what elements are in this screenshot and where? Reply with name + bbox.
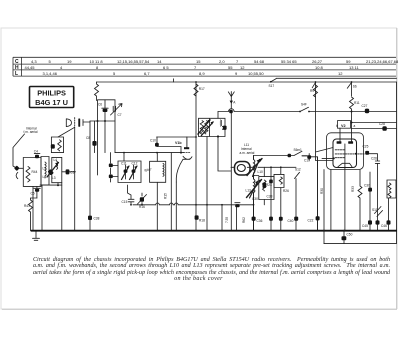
svg-text:H: H: [15, 65, 19, 71]
svg-text:L2: L2: [43, 167, 47, 171]
svg-text:C11: C11: [121, 162, 127, 166]
svg-text:V2: V2: [341, 124, 346, 128]
svg-text:12: 12: [240, 65, 245, 70]
svg-text:9: 9: [235, 71, 238, 76]
svg-text:R16: R16: [139, 205, 145, 209]
svg-text:C6: C6: [98, 103, 102, 107]
svg-text:55: 55: [228, 65, 233, 70]
svg-text:C27: C27: [362, 104, 368, 108]
svg-text:3,1,4,46: 3,1,4,46: [43, 71, 58, 76]
svg-text:21,23,24,66,67,68: 21,23,24,66,67,68: [366, 59, 399, 64]
svg-text:A: A: [233, 101, 236, 105]
svg-text:6 5: 6 5: [163, 65, 169, 70]
svg-text:R24: R24: [266, 183, 272, 187]
svg-text:R33: R33: [351, 186, 355, 192]
svg-text:R17: R17: [199, 87, 205, 91]
svg-text:5: 5: [113, 71, 116, 76]
svg-text:R11: R11: [354, 101, 360, 105]
svg-text:10 11 8: 10 11 8: [90, 59, 104, 64]
svg-text:C4: C4: [34, 150, 38, 154]
svg-text:C45: C45: [362, 224, 368, 228]
svg-text:C5: C5: [31, 192, 35, 196]
svg-text:44,45: 44,45: [25, 65, 36, 70]
svg-text:14: 14: [157, 59, 162, 64]
svg-text:S12: S12: [295, 168, 301, 172]
svg-text:C8: C8: [86, 136, 90, 140]
svg-text:4: 4: [60, 65, 63, 70]
svg-text:7: 7: [194, 65, 197, 70]
svg-text:C36: C36: [257, 219, 263, 223]
svg-text:R44: R44: [32, 170, 38, 174]
svg-text:S11: S11: [372, 208, 378, 212]
svg-text:R30: R30: [320, 188, 324, 194]
svg-text:5: 5: [49, 59, 52, 64]
svg-text:13 11: 13 11: [349, 65, 359, 70]
svg-text:L1: L1: [43, 175, 47, 179]
svg-text:L4: L4: [54, 158, 58, 162]
svg-text:R15: R15: [164, 193, 168, 199]
svg-text:59: 59: [346, 59, 351, 64]
svg-text:PHILIPS: PHILIPS: [37, 89, 66, 98]
svg-text:7: 7: [236, 59, 239, 64]
svg-text:a.m. aerial: a.m. aerial: [240, 151, 255, 155]
svg-text:C7: C7: [118, 113, 122, 117]
svg-text:S17: S17: [269, 84, 275, 88]
svg-text:C3: C3: [70, 171, 74, 175]
svg-text:4,3: 4,3: [31, 59, 37, 64]
svg-text:C10: C10: [150, 139, 156, 143]
svg-text:10 8: 10 8: [315, 65, 324, 70]
svg-text:B4G 17 U: B4G 17 U: [35, 98, 68, 107]
svg-text:L10: L10: [258, 170, 264, 174]
svg-text:S4F: S4F: [301, 103, 307, 107]
svg-text:8: 8: [96, 65, 99, 70]
svg-text:R18: R18: [199, 219, 205, 223]
svg-text:a: a: [354, 124, 356, 128]
svg-text:L: L: [15, 71, 18, 77]
svg-text:C30: C30: [252, 197, 258, 201]
svg-text:55 34 65: 55 34 65: [281, 59, 297, 64]
svg-text:R26: R26: [283, 189, 289, 193]
svg-text:8|8-7: 8|8-7: [144, 167, 152, 172]
svg-text:19: 19: [67, 59, 72, 64]
svg-text:C50: C50: [347, 233, 353, 237]
svg-text:S6m1: S6m1: [294, 148, 303, 152]
svg-text:C22: C22: [308, 219, 314, 223]
svg-text:L3: L3: [52, 176, 56, 180]
svg-text:10,55,50: 10,55,50: [248, 71, 264, 76]
svg-text:C33: C33: [267, 195, 273, 199]
svg-text:8,9: 8,9: [199, 71, 205, 76]
svg-text:R62: R62: [242, 217, 246, 223]
svg-text:C30: C30: [364, 184, 370, 188]
svg-text:C28: C28: [379, 122, 385, 126]
svg-text:12: 12: [338, 71, 343, 76]
svg-text:R9: R9: [310, 89, 314, 93]
svg-text:L13: L13: [246, 189, 252, 193]
svg-text:6,7: 6,7: [144, 71, 150, 76]
svg-text:7.55: 7.55: [225, 217, 229, 223]
svg-text:2,0: 2,0: [219, 59, 225, 64]
svg-text:15: 15: [196, 59, 201, 64]
svg-text:C19: C19: [304, 159, 310, 163]
svg-text:S6: S6: [353, 85, 357, 89]
svg-text:V1b: V1b: [175, 141, 182, 145]
svg-text:C40: C40: [288, 219, 294, 223]
svg-text:f.m. aerial: f.m. aerial: [24, 130, 38, 134]
svg-text:C15: C15: [122, 200, 128, 204]
svg-text:26,27: 26,27: [312, 59, 323, 64]
svg-text:b: b: [336, 124, 338, 128]
svg-text:C26: C26: [371, 157, 377, 161]
svg-text:C38: C38: [94, 217, 100, 221]
svg-text:C12: C12: [132, 162, 138, 166]
svg-text:R41: R41: [24, 204, 30, 208]
svg-text:12,15,16,55,57,54: 12,15,16,55,57,54: [117, 59, 150, 64]
svg-text:C25: C25: [363, 145, 369, 149]
svg-text:C46: C46: [381, 224, 387, 228]
svg-text:54 68: 54 68: [254, 59, 265, 64]
